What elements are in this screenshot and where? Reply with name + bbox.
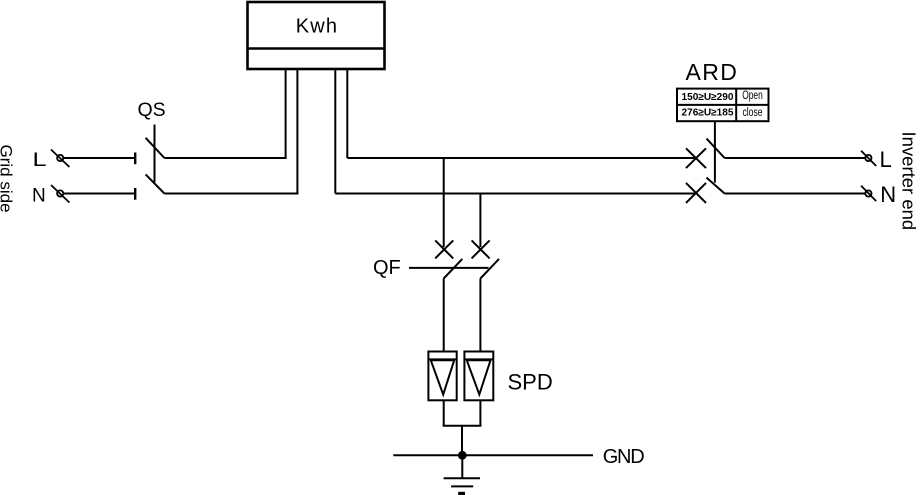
arrester SPD2 — [464, 352, 493, 401]
svg-text:QS: QS — [138, 99, 166, 121]
wire N from QS to meter — [164, 193, 298, 195]
wire L from ARD to inverter — [725, 157, 866, 159]
switch ARD blade pole N — [707, 178, 725, 194]
svg-text:Kwh: Kwh — [296, 16, 339, 38]
breaker QF contact X right — [472, 240, 490, 258]
svg-text:SPD: SPD — [508, 369, 553, 394]
breaker QF blade left — [444, 259, 463, 279]
wire SPD1 to bus — [443, 400, 445, 425]
switch ARD coupling bar — [714, 121, 716, 182]
terminal tick N — [134, 188, 136, 200]
svg-text:N: N — [880, 182, 896, 207]
wire QF tap N — [479, 194, 481, 248]
switch ARD contact X pole N — [686, 183, 706, 203]
breaker QF linkage bar — [409, 267, 489, 269]
wire GND bus — [393, 454, 593, 456]
svg-text:276≥U≥185: 276≥U≥185 — [682, 108, 734, 119]
wire QF tap L — [443, 158, 445, 247]
wire meter terminal 2 (N in) — [296, 69, 298, 194]
ground symbol — [444, 455, 480, 495]
terminal L inverter (circle with slash) — [861, 151, 876, 166]
svg-text:GND: GND — [603, 446, 644, 468]
breaker QF contact X left — [435, 240, 453, 258]
svg-text:150≥U≥290: 150≥U≥290 — [682, 92, 734, 103]
svg-text:Grid side: Grid side — [0, 145, 16, 213]
switch QS coupling bar — [154, 125, 156, 183]
wire meter terminal 4 (L out) — [346, 69, 348, 158]
junction dot on GND bus — [458, 451, 467, 460]
switch ARD contact X pole L — [686, 148, 706, 168]
svg-text:Inverter end: Inverter end — [898, 132, 919, 231]
arrester SPD1 — [428, 352, 456, 401]
wire SPD2 to bus — [479, 400, 481, 425]
breaker QF blade right — [480, 259, 499, 279]
wire QF to SPD1 — [443, 279, 445, 352]
wire N from ARD to inverter — [725, 193, 866, 195]
wire L grid lead — [63, 157, 135, 159]
meter U1 Kwh box — [248, 2, 385, 69]
terminal tick L — [134, 153, 136, 165]
wire L from meter to ARD — [347, 157, 696, 159]
svg-text:ARD: ARD — [686, 59, 739, 85]
wire SPD join — [443, 425, 482, 427]
svg-text:N: N — [32, 186, 46, 207]
svg-text:L: L — [33, 150, 47, 171]
wire QF to SPD2 — [479, 279, 481, 352]
svg-text:QF: QF — [373, 257, 401, 279]
switch QS blade pole N — [146, 174, 165, 193]
wire meter terminal 3 (N out) — [334, 69, 336, 194]
wire N grid lead — [63, 193, 135, 195]
switch QS blade pole L — [146, 138, 165, 158]
svg-text:close: close — [743, 107, 763, 119]
terminal N inverter (circle with slash) — [861, 186, 876, 201]
wire meter terminal 1 (L in) — [285, 69, 287, 158]
wire SPD drop to ground bus — [461, 426, 463, 456]
switch ARD blade pole L — [707, 139, 725, 158]
svg-text:Open: Open — [742, 88, 763, 102]
svg-text:L: L — [880, 147, 892, 172]
wire L from QS to meter — [164, 157, 286, 159]
terminal N grid (circle with slash) — [51, 185, 69, 203]
relay ARD table — [677, 89, 769, 122]
wire N from meter to ARD — [335, 193, 696, 195]
terminal L grid (circle with slash) — [51, 150, 69, 168]
